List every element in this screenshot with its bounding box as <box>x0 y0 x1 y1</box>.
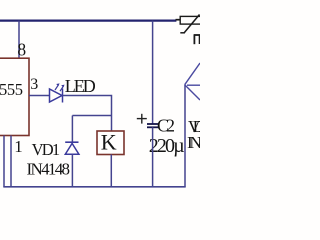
thermistor RT top right: lead <box>176 19 181 21</box>
wire C2 top <box>152 21 154 124</box>
LED D1 triangle <box>50 89 63 102</box>
IC U1 555 timer box <box>0 58 29 135</box>
wire VD1 vertical upper <box>71 116 73 143</box>
plus polarity sign <box>137 114 147 124</box>
diode VD1 cathode bar <box>65 141 78 143</box>
svg-text:C2: C2 <box>157 116 175 136</box>
wire left border lower <box>3 136 5 187</box>
capacitor C2 plates <box>147 124 159 127</box>
ground bottom rail <box>3 186 185 188</box>
top VCC rail <box>0 20 176 22</box>
wire VD1 top horizontal <box>72 115 111 117</box>
LED arrows <box>55 83 65 91</box>
svg-text:555: 555 <box>0 80 23 99</box>
svg-text:8: 8 <box>17 40 26 60</box>
svg-text:IN4148: IN4148 <box>27 160 71 179</box>
wire C2 bottom to rail <box>152 127 154 187</box>
svg-text:220µ: 220µ <box>149 135 185 157</box>
diode VD1 triangle <box>65 143 79 154</box>
wire pin3 to LED <box>29 95 50 97</box>
wire VD1 bottom to ground rail <box>71 154 73 187</box>
thermistor RT body box <box>180 16 201 24</box>
svg-text:1: 1 <box>14 137 22 156</box>
wire pin1 down <box>10 136 12 187</box>
wire pin8 to rail <box>18 21 20 59</box>
relay K box <box>97 131 124 155</box>
svg-text:IN4: IN4 <box>187 133 200 152</box>
svg-text:LED: LED <box>65 76 96 96</box>
svg-text:VD1: VD1 <box>32 140 60 159</box>
wire relay bottom to rail <box>110 155 112 187</box>
svg-text:K: K <box>101 130 117 155</box>
wire LED to corner down to relay <box>63 96 112 132</box>
svg-text:3: 3 <box>30 76 38 93</box>
wire right riser to bridge vertex <box>184 85 186 187</box>
bridge rectifier partial diamond <box>185 63 200 100</box>
thermistor RT diagonal with foot <box>180 15 199 33</box>
JI glyph label below thermistor <box>194 35 200 44</box>
LED D1 cathode bar <box>62 89 64 103</box>
